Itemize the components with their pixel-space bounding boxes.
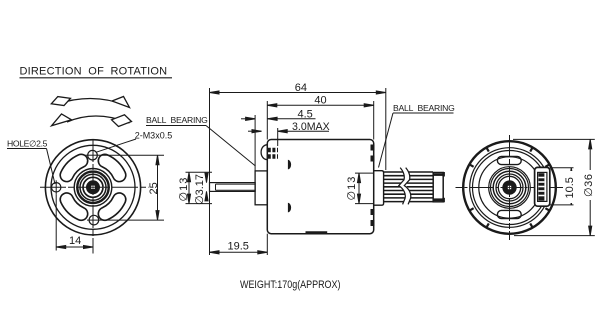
svg-text:10.5: 10.5 xyxy=(564,177,576,198)
svg-text:25: 25 xyxy=(148,182,160,194)
svg-text:64: 64 xyxy=(295,82,307,94)
svg-text:∅13: ∅13 xyxy=(346,176,358,201)
svg-text:2-M3x0.5: 2-M3x0.5 xyxy=(135,131,173,141)
svg-text:DIRECTION OF ROTATION: DIRECTION OF ROTATION xyxy=(20,66,168,78)
svg-text:BALL BEARING: BALL BEARING xyxy=(393,103,455,113)
svg-text:14: 14 xyxy=(69,235,81,247)
svg-text:3.0MAX: 3.0MAX xyxy=(292,121,330,133)
svg-text:HOLE∅2.5: HOLE∅2.5 xyxy=(7,138,48,148)
svg-text:4.5: 4.5 xyxy=(298,109,313,121)
svg-text:∅36: ∅36 xyxy=(583,173,595,197)
svg-text:WEIGHT:170g(APPROX): WEIGHT:170g(APPROX) xyxy=(240,279,340,291)
svg-text:40: 40 xyxy=(314,95,326,107)
svg-text:∅3.17: ∅3.17 xyxy=(194,174,206,205)
svg-text:BALL BEARING: BALL BEARING xyxy=(146,115,208,125)
svg-text:∅13: ∅13 xyxy=(178,177,190,202)
svg-text:19.5: 19.5 xyxy=(228,241,249,253)
